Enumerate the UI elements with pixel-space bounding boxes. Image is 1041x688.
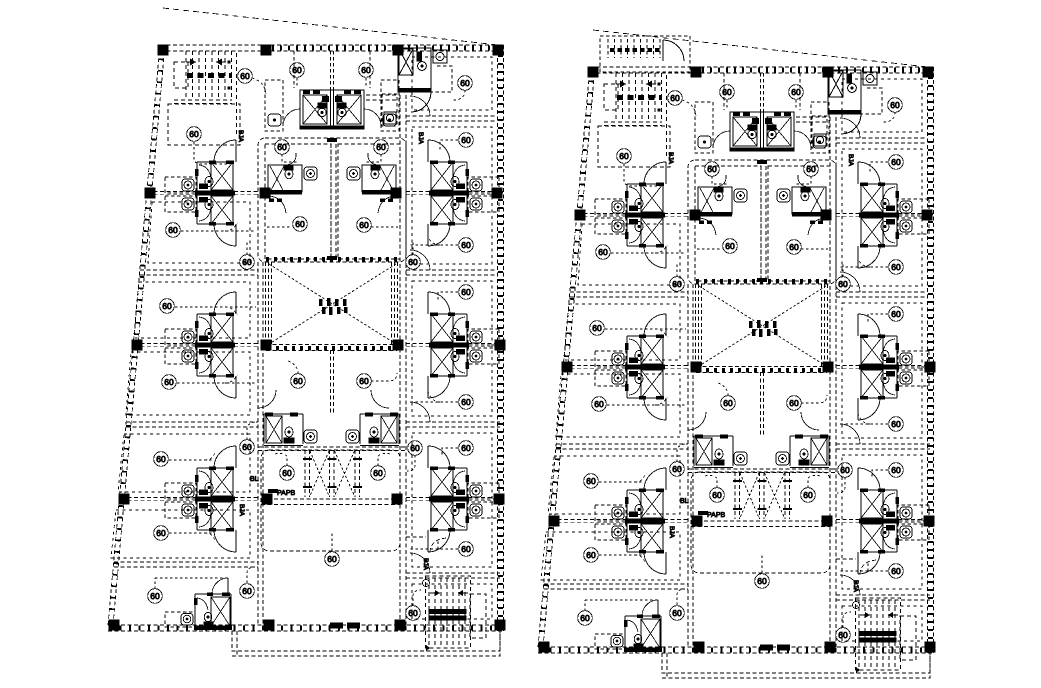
label 60 marker at 300,224 — [293, 217, 308, 232]
door arc room L3 bottom — [214, 530, 236, 552]
door arc room R2 bottom — [428, 376, 450, 398]
label 60 marker at 247,447 — [240, 440, 255, 455]
door arc room L4 — [212, 578, 228, 594]
svg-text:BJA: BJA — [422, 558, 429, 571]
door arc room R3 bottom — [428, 530, 450, 552]
svg-text:BJA: BJA — [238, 504, 245, 517]
bath cluster R2 — [429, 313, 469, 378]
label 60 marker at 466,402 — [459, 395, 474, 410]
left room divider 3 — [114, 562, 258, 567]
column row 1 — [158, 45, 169, 56]
bath cluster L2 — [195, 313, 235, 378]
door arc room L1 bottom — [214, 224, 236, 246]
bath cluster L1 — [195, 161, 235, 226]
left room wall row2 — [147, 191, 258, 194]
column row 4 — [119, 494, 130, 505]
label 60 marker at 364,381 — [357, 374, 372, 389]
central corridor block — [258, 138, 406, 262]
lower-center bath right — [346, 413, 399, 446]
bath cluster R3 — [429, 467, 469, 532]
label 60 marker at 169,382 — [162, 375, 177, 390]
bottom extension outline — [232, 631, 500, 656]
label 60 marker at 466,245 — [459, 238, 474, 253]
room inset outlines right — [412, 57, 492, 110]
shaft center hatch — [319, 299, 323, 306]
door arc room L2 bottom — [214, 376, 236, 398]
bath cluster L3 — [195, 467, 235, 532]
column row 5 — [109, 620, 120, 631]
label 60 marker at 247,591 — [240, 584, 255, 599]
mid-center bath right — [347, 153, 396, 213]
label 60 marker at 194,134 — [187, 127, 202, 142]
label 60 marker at 381,147 — [374, 140, 389, 155]
label 60 marker at 155,596 — [148, 589, 163, 604]
central block half-room insets — [265, 144, 331, 259]
door arc lower-center left — [258, 390, 276, 408]
entry door sills — [330, 623, 343, 629]
door arc room R1 top — [428, 140, 450, 162]
left floor plan — [108, 8, 506, 656]
perimeter bottom wall — [108, 625, 503, 631]
door arc room R3 top — [428, 446, 450, 468]
elevator shaft with X — [266, 262, 398, 345]
svg-text:BJA: BJA — [237, 130, 244, 143]
stair top-left — [168, 51, 240, 145]
lower-center bath left — [264, 413, 317, 446]
label 60 marker at 173,230 — [166, 223, 181, 238]
label 60 marker at 465,83 — [458, 76, 473, 91]
label 60 marker at 161,459 — [154, 452, 169, 467]
perimeter left slant wall — [108, 45, 165, 625]
door arc room R2 top — [428, 292, 450, 314]
label 60 marker at 287,473 — [280, 466, 295, 481]
site boundary slant line — [163, 8, 498, 45]
lobby outline — [261, 450, 400, 551]
label 60 marker at 366,70 — [359, 63, 374, 78]
label 60 marker at 167,306 — [160, 299, 175, 314]
left room wall row3 — [134, 343, 258, 346]
column row 2 — [145, 188, 156, 199]
label 60 marker at 466,549 — [459, 542, 474, 557]
right room divider 2 — [406, 422, 500, 427]
label 60 marker at 378,473 — [371, 466, 386, 481]
label 60 marker at 415,448 — [408, 441, 423, 456]
door arc room L1 top — [214, 140, 236, 162]
right room wall row2 — [406, 191, 497, 194]
stair bottom-right — [426, 576, 487, 648]
corridor west wall — [258, 262, 263, 625]
door arc lower-center right — [371, 390, 389, 408]
label 60 marker at 466,448 — [459, 441, 474, 456]
right room wall row4 — [406, 497, 499, 500]
room inset outlines left — [148, 202, 250, 263]
label 60 marker at 466,292 — [459, 285, 474, 300]
door arc room L3 top — [214, 446, 236, 468]
right plan top stair block — [600, 36, 690, 72]
label 60 marker at 413,613 — [406, 606, 421, 621]
door arc room R1 bottom — [428, 224, 450, 246]
right room wall row3 — [406, 343, 500, 346]
right floor plan (translated copy) — [538, 30, 936, 678]
corridor east wall — [400, 95, 406, 625]
label 60 marker at 282,147 — [275, 140, 290, 155]
door arc room L2 top — [214, 292, 236, 314]
left room divider 1 — [140, 270, 258, 275]
label 60 markers — [238, 69, 253, 84]
perimeter right wall — [498, 45, 504, 631]
central block divider — [331, 144, 336, 259]
top-center bath pair — [265, 51, 399, 131]
left room divider 2 — [126, 422, 258, 427]
svg-text:BL: BL — [250, 476, 259, 483]
center divider below shaft — [331, 350, 334, 414]
column row 3 — [132, 340, 143, 351]
label 60 marker at 332,559 — [325, 552, 340, 567]
bath cluster R1 — [429, 161, 469, 226]
label 60 marker at 413,262 — [406, 255, 421, 270]
leader conduits — [252, 78, 266, 96]
right room divider 0 — [406, 116, 497, 121]
mid-center bath left — [268, 153, 317, 213]
bath cluster L4 (bottom) — [194, 593, 232, 631]
label 60 marker at 364,225 — [357, 218, 372, 233]
right divider door arcs — [410, 96, 430, 573]
label 60 marker at 161,533 — [154, 526, 169, 541]
svg-text:PAPB: PAPB — [277, 490, 295, 497]
left room wall row4 — [121, 497, 258, 500]
label 60 marker at 466,140 — [459, 133, 474, 148]
elevator bank — [303, 450, 362, 497]
label 60 marker at 247,262 — [240, 255, 255, 270]
corridor wall above elevators — [258, 447, 406, 451]
perimeter top wall — [160, 45, 503, 51]
svg-text:BJA: BJA — [417, 132, 424, 145]
right room divider 1 — [406, 270, 497, 275]
label 60 marker at 298,381 — [291, 374, 306, 389]
right room divider 3 — [406, 573, 500, 578]
label 60 marker at 297,70 — [290, 63, 305, 78]
top-right corner bath — [382, 48, 452, 126]
